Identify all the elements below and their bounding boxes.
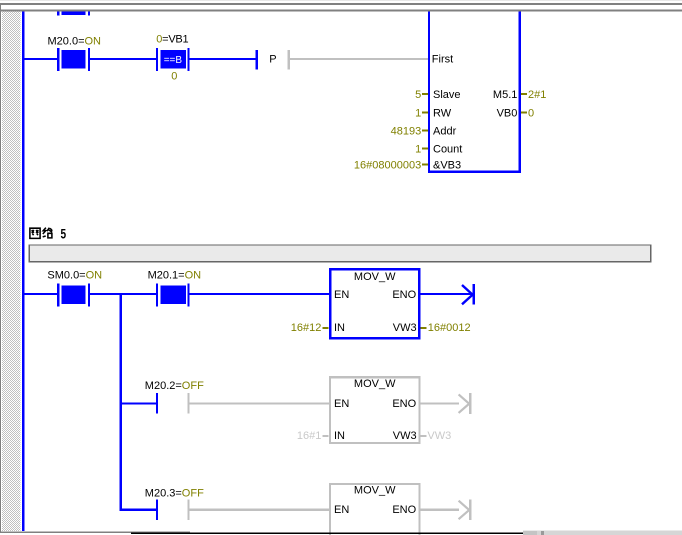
svg-text:==B: ==B [164,55,183,66]
svg-text:EN: EN [334,398,349,410]
svg-text:16#1: 16#1 [297,430,321,442]
svg-text:M20.3=OFF: M20.3=OFF [145,488,204,500]
svg-text:M5.1: M5.1 [493,89,517,101]
svg-text:48193: 48193 [391,126,422,138]
svg-text:P: P [269,54,276,66]
svg-text:0: 0 [171,71,177,83]
svg-text:EN: EN [334,504,349,516]
svg-text:VW3: VW3 [393,430,417,442]
svg-text:Count: Count [433,144,462,156]
svg-text:RW: RW [433,108,452,120]
svg-text:&VB3: &VB3 [433,160,461,172]
svg-text:MOV_W: MOV_W [354,271,396,283]
svg-text:M20.1=ON: M20.1=ON [148,270,202,282]
svg-text:5: 5 [61,226,67,242]
svg-text:VW3: VW3 [427,430,451,442]
svg-text:16#08000003: 16#08000003 [354,160,421,172]
svg-text:5: 5 [415,89,421,101]
svg-text:First: First [432,54,453,66]
svg-text:16#0012: 16#0012 [428,322,471,334]
svg-text:IN: IN [334,322,345,334]
svg-text:ENO: ENO [392,398,416,410]
svg-text:MOV_W: MOV_W [354,485,396,497]
svg-text:MOV_W: MOV_W [354,378,396,390]
svg-text:VW3: VW3 [393,322,417,334]
svg-text:EN: EN [334,289,349,301]
svg-text:0=VB1: 0=VB1 [156,34,188,46]
svg-text:2#1: 2#1 [528,89,546,101]
svg-text:ENO: ENO [392,504,416,516]
svg-text:ENO: ENO [392,289,416,301]
svg-text:VB0: VB0 [497,108,518,120]
svg-text:M20.0=ON: M20.0=ON [48,35,102,47]
svg-text:Addr: Addr [433,126,457,138]
svg-text:M20.2=OFF: M20.2=OFF [145,380,204,392]
svg-text:Slave: Slave [433,89,461,101]
svg-text:1: 1 [415,144,421,156]
svg-text:0: 0 [528,108,534,120]
svg-text:SM0.0=ON: SM0.0=ON [47,270,102,282]
svg-text:IN: IN [334,430,345,442]
svg-text:1: 1 [415,108,421,120]
svg-text:16#12: 16#12 [291,322,322,334]
